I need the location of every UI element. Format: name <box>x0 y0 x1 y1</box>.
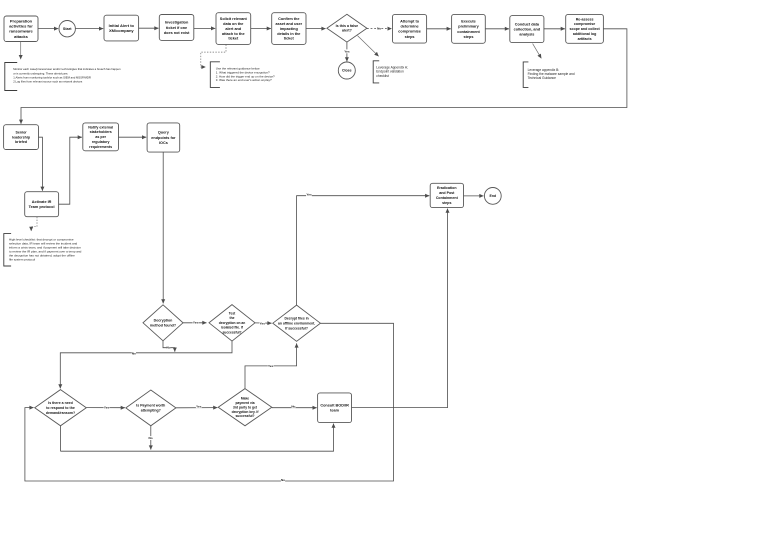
svg-text:End: End <box>489 194 496 198</box>
svg-text:Yes: Yes <box>196 404 202 408</box>
svg-text:Activate IRTeam protocol: Activate IRTeam protocol <box>29 200 55 209</box>
svg-text:Yes: Yes <box>193 320 199 324</box>
svg-text:Yes: Yes <box>104 405 110 409</box>
svg-text:Start: Start <box>63 27 72 31</box>
svg-text:No: No <box>132 351 136 355</box>
svg-text:Yes: Yes <box>344 49 350 53</box>
svg-text:No: No <box>149 436 153 440</box>
svg-text:Initial Alert toXM/company: Initial Alert toXM/company <box>109 23 135 33</box>
svg-text:No: No <box>377 26 381 30</box>
svg-text:Yes: Yes <box>260 321 266 325</box>
svg-text:No: No <box>291 404 295 408</box>
svg-text:Is there a needto respond to t: Is there a needto respond to thedemand/r… <box>46 401 75 415</box>
svg-text:No: No <box>167 346 171 350</box>
svg-text:Yes: Yes <box>306 193 312 197</box>
svg-text:Close: Close <box>342 69 352 73</box>
svg-text:Yes: Yes <box>268 364 274 368</box>
svg-text:Decryptionmethod found?: Decryptionmethod found? <box>150 319 176 328</box>
svg-text:Investigationticket if onedoes: Investigationticket if onedoes not exist <box>164 21 190 35</box>
svg-text:No: No <box>281 478 285 482</box>
